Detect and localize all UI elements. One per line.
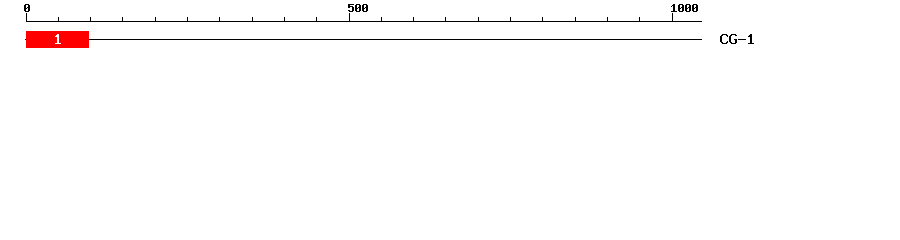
ruler major tick at x=26 [26,13,27,21]
ruler minor tick at x=219 [219,17,220,21]
ruler major tick at x=672 [672,13,673,21]
ruler minor tick at x=122 [122,17,123,21]
exon box (red) [26,31,89,48]
ruler minor tick at x=252 [252,17,253,21]
feature connector line [25,39,702,40]
ruler scale label 0 [24,4,30,12]
ruler minor tick at x=575 [575,17,576,21]
ruler scale label 500 [348,4,368,12]
ruler minor tick at x=542 [542,17,543,21]
ruler minor tick at x=445 [445,17,446,21]
ruler minor tick at x=381 [381,17,382,21]
ruler baseline [26,21,702,22]
feature name label CG-1 [720,34,754,44]
ruler minor tick at x=413 [413,17,414,21]
background [0,0,900,58]
ruler minor tick at x=58 [58,17,59,21]
ruler minor tick at x=316 [316,17,317,21]
ruler minor tick at x=478 [478,17,479,21]
ruler major tick at x=349 [349,13,350,21]
ruler scale label 1000 [671,4,698,12]
exon number 1 (white) [55,34,61,44]
ruler minor tick at x=284 [284,17,285,21]
ruler minor tick at x=187 [187,17,188,21]
ruler minor tick at x=639 [639,17,640,21]
ruler minor tick at x=607 [607,17,608,21]
ruler minor tick at x=90 [90,17,91,21]
ruler minor tick at x=510 [510,17,511,21]
ruler minor tick at x=155 [155,17,156,21]
